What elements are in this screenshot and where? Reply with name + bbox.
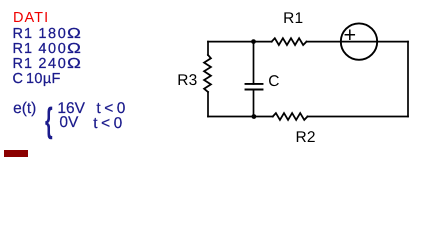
brace of e(t) definition bbox=[45, 103, 53, 138]
component label R3 bbox=[177, 73, 197, 89]
wire left lower: left corner up to R3 bbox=[207, 92, 209, 117]
wire bottom-left: R2 to left corner bbox=[208, 116, 273, 118]
e(t) value 0V bbox=[59, 115, 78, 131]
wire bottom-right: right corner to R2 bbox=[308, 116, 409, 118]
e(t) condition t&lt;0 (bottom) bbox=[93, 116, 125, 132]
e(t) value 16V bbox=[57, 101, 85, 117]
node junction dot bottom bbox=[252, 114, 257, 119]
capacitor C top plate bbox=[246, 83, 263, 85]
circuit schematic bbox=[0, 0, 421, 161]
title DATI bbox=[13, 11, 49, 26]
value label R1 180ohm bbox=[13, 27, 34, 42]
capacitor C bottom plate bbox=[246, 89, 263, 91]
wire top-left: left corner to R1 bbox=[208, 41, 272, 43]
source label e(t) bbox=[13, 101, 36, 117]
wire top-right: R1 to source and through to right corner bbox=[307, 41, 409, 43]
wire left upper: R3 to top-left corner bbox=[207, 42, 209, 55]
e(t) condition t&lt;0 (top) bbox=[96, 101, 128, 117]
resistor R3 bbox=[204, 55, 211, 92]
value label R1 400ohm bbox=[13, 42, 34, 57]
resistor R2 bbox=[273, 113, 308, 120]
plus polarity mark bbox=[345, 30, 354, 39]
red bar bottom-left bbox=[4, 150, 28, 157]
value label C 10uF bbox=[13, 72, 25, 87]
node junction dot top bbox=[251, 39, 256, 44]
wire middle branch upper: junction to capacitor bbox=[253, 42, 255, 84]
wire middle branch lower: capacitor to bottom junction bbox=[253, 90, 255, 117]
component label C bbox=[268, 74, 279, 90]
wire right side bbox=[407, 42, 409, 117]
component label R1 bbox=[283, 11, 303, 27]
value label R1 240ohm bbox=[13, 57, 34, 72]
voltage source E circle bbox=[341, 23, 377, 59]
resistor R1 bbox=[272, 38, 307, 45]
component label R2 bbox=[296, 130, 316, 146]
